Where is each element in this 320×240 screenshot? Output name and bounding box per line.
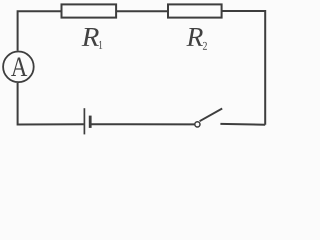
- resistor R1: [62, 4, 117, 17]
- wire: ammeter down to bottom-left corner and to battery: [18, 83, 84, 125]
- battery cell: long plate: [83, 108, 85, 134]
- switch S1: blade: [200, 109, 223, 122]
- wire: R2 to top-right corner, down right side: [222, 11, 266, 125]
- wire: switch to bottom-right corner: [220, 123, 265, 126]
- wire: between R1 and R2: [116, 10, 168, 12]
- label R1: [82, 28, 103, 49]
- wire: top-left corner down to ammeter: [18, 11, 62, 51]
- label R2: [186, 28, 207, 50]
- switch S1: pivot circle: [195, 122, 200, 127]
- battery cell: short thick plate: [89, 116, 92, 128]
- ammeter A1: circle: [3, 52, 34, 83]
- wire: battery to switch: [91, 123, 195, 125]
- ammeter A1: letter A: [11, 58, 27, 76]
- resistor R2: [168, 4, 222, 17]
